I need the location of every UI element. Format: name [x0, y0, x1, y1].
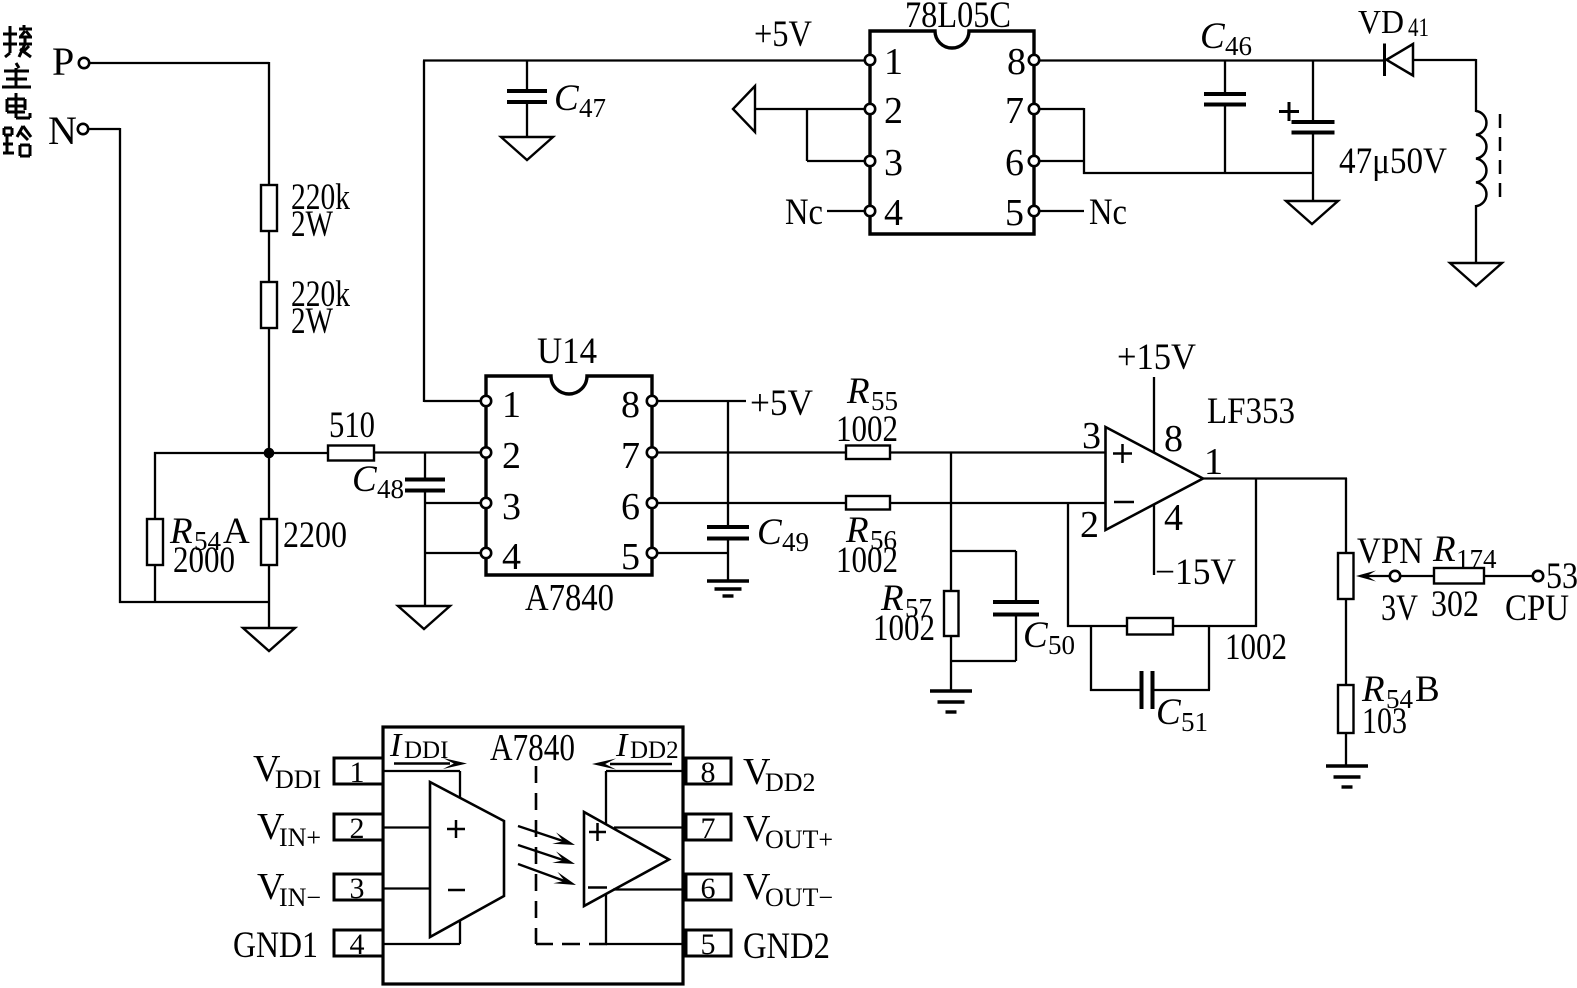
svg-text:46: 46	[1225, 31, 1252, 61]
wire C49 riser	[727, 401, 729, 525]
potentiometer R VPN	[1338, 553, 1354, 599]
ground C49	[707, 581, 749, 596]
label VDD2	[743, 751, 816, 797]
wire pin8 output rail	[1039, 59, 1384, 61]
svg-text:C: C	[554, 78, 580, 119]
wire P vertical to R 220k	[268, 62, 270, 186]
label R54A 2000	[169, 511, 250, 581]
wire 510 to U14 pin2	[373, 451, 483, 453]
pin 4 box GND1	[334, 928, 383, 961]
wire +5V vertical riser	[423, 61, 425, 403]
svg-text:5: 5	[701, 928, 716, 961]
output amplifier triangle	[584, 812, 669, 906]
svg-text:4: 4	[884, 192, 903, 234]
wire R54A bottom stub	[154, 564, 156, 603]
svg-text:LF353: LF353	[1207, 391, 1295, 432]
triangle minus mark	[588, 886, 607, 889]
trapezoid plus mark	[447, 820, 465, 838]
junction node divider	[264, 448, 275, 459]
svg-text:6: 6	[621, 486, 640, 528]
capacitor C51	[1142, 671, 1153, 709]
pin 7 box VOUT+	[686, 812, 731, 845]
resistor feedback 1002	[1127, 618, 1173, 635]
arrow IDD2	[592, 759, 672, 770]
pin 8 U14	[621, 384, 657, 426]
pin 2 U14	[481, 435, 521, 477]
svg-text:2200: 2200	[283, 515, 347, 556]
resistor 220k 2W upper	[261, 185, 277, 231]
svg-text:49: 49	[782, 527, 809, 557]
label VOUT-	[743, 866, 833, 912]
svg-text:7: 7	[701, 812, 716, 845]
voltage regulator 78L05C box	[870, 31, 1034, 234]
isolation amplifier U14 box	[486, 376, 652, 575]
wire R57 to ground	[950, 635, 952, 691]
wire output to VPN pot	[1345, 478, 1347, 554]
label 53	[1546, 556, 1577, 597]
label U14	[537, 331, 597, 372]
A7840 internal box	[383, 727, 683, 984]
power label +15V	[1117, 337, 1196, 378]
power label +5V top	[754, 14, 812, 55]
svg-text:2: 2	[350, 812, 365, 845]
resistor R56	[846, 496, 890, 510]
wire electrolytic top stub	[1312, 60, 1314, 120]
wire coil to ground	[1475, 205, 1477, 264]
svg-text:47μ50V: 47μ50V	[1339, 141, 1447, 182]
svg-text:8: 8	[1007, 41, 1026, 83]
svg-text:6: 6	[701, 872, 716, 905]
label Nc pin5	[1089, 192, 1127, 233]
svg-text:51: 51	[1181, 707, 1208, 737]
wire 2200 bottom stub	[268, 564, 270, 602]
capacitor C50	[993, 602, 1039, 615]
label R174	[1432, 529, 1497, 574]
svg-text:2000: 2000	[173, 540, 235, 581]
svg-text:7: 7	[1005, 90, 1024, 132]
pin 3 78L05C	[865, 142, 903, 184]
svg-text:78L05C: 78L05C	[905, 0, 1011, 36]
svg-text:4: 4	[1164, 497, 1183, 539]
svg-text:6: 6	[1005, 142, 1024, 184]
wire R54B to ground	[1345, 732, 1347, 766]
pin 4 78L05C	[865, 192, 903, 234]
wire pot to R54B	[1345, 598, 1347, 686]
wire C46 top stub	[1224, 60, 1226, 92]
pin 8 label opamp	[1164, 418, 1183, 460]
label R55	[846, 371, 898, 416]
label VIN-	[257, 866, 321, 912]
voltage label 3V	[1381, 588, 1418, 629]
resistor R54B	[1338, 685, 1354, 733]
wire pin7 to R55	[657, 451, 847, 453]
svg-text:1: 1	[350, 756, 365, 789]
wire C51 right leg	[1153, 626, 1210, 690]
power label +5V U14	[750, 383, 813, 424]
value label R57 1002	[873, 608, 935, 649]
wire Nc pin4	[827, 210, 865, 212]
svg-text:3V: 3V	[1381, 588, 1418, 629]
wire wiper to R174	[1400, 575, 1435, 577]
wire electrolytic ground stub	[1312, 134, 1314, 202]
capacitor C46	[1204, 94, 1246, 105]
resistor 2200	[261, 519, 277, 565]
wire pin3 stub	[425, 502, 483, 504]
net label VPN	[1357, 531, 1423, 572]
value label R174 302	[1431, 584, 1479, 625]
pin 6 U14	[621, 486, 657, 528]
label R56	[845, 510, 897, 555]
wire N horizontal	[88, 128, 120, 130]
op-amp plus input mark	[1113, 444, 1132, 463]
wire pin4 stub	[425, 552, 483, 554]
svg-text:5: 5	[621, 536, 640, 578]
svg-text:A7840: A7840	[490, 727, 575, 769]
ground U14 input side	[398, 606, 450, 629]
wire U14 pin1 horizontal	[424, 400, 483, 402]
svg-text:R: R	[1432, 529, 1456, 570]
label Nc pin4	[785, 192, 823, 233]
resistor 510	[328, 446, 374, 461]
svg-text:+5V: +5V	[754, 14, 812, 55]
ground coil	[1450, 263, 1502, 286]
wire C51 left leg	[1090, 626, 1141, 691]
svg-text:2: 2	[502, 435, 521, 477]
label C46	[1200, 16, 1252, 61]
svg-text:A7840: A7840	[525, 577, 614, 619]
pin 2 78L05C	[865, 90, 903, 132]
op-amp U15 LF353 triangle	[1106, 427, 1204, 530]
wire pin4 to amp	[383, 920, 460, 944]
pin 5 U14	[621, 536, 657, 578]
svg-text:OUT−: OUT−	[765, 883, 833, 912]
svg-text:IN−: IN−	[279, 883, 321, 912]
label C50	[1023, 615, 1075, 660]
svg-text:IN+: IN+	[279, 823, 321, 852]
svg-text:P: P	[52, 39, 74, 84]
svg-text:1002: 1002	[836, 540, 898, 581]
capacitor C48	[405, 480, 445, 491]
svg-text:+5V: +5V	[750, 383, 813, 424]
wire -15V supply	[1153, 504, 1155, 575]
label A7840	[525, 577, 614, 619]
svg-text:7: 7	[621, 435, 640, 477]
value label 510	[329, 405, 375, 446]
svg-text:C: C	[1023, 615, 1049, 656]
pin 4 label opamp	[1164, 497, 1183, 539]
svg-text:N: N	[48, 108, 77, 153]
svg-text:GND1: GND1	[233, 925, 318, 966]
svg-text:DD2: DD2	[630, 737, 679, 764]
wire C48 top stub	[424, 453, 426, 479]
svg-text:3: 3	[884, 142, 903, 184]
ground electrolytic	[1286, 201, 1338, 224]
terminal P	[52, 39, 89, 84]
wire pin5 to amp	[606, 894, 683, 944]
arrow output symbol	[733, 86, 755, 132]
wire C50 bottom	[951, 616, 1016, 661]
svg-text:1002: 1002	[836, 409, 898, 450]
terminal VPN wiper	[1390, 571, 1400, 581]
svg-text:OUT+: OUT+	[765, 825, 833, 854]
power label -15V	[1155, 552, 1236, 593]
wire R174 to CPU	[1483, 575, 1534, 577]
svg-text:5: 5	[1005, 192, 1024, 234]
wire C46 bottom stub	[1224, 106, 1226, 174]
wire pin8 to amp	[606, 771, 683, 824]
wire R54A vertical stub	[154, 452, 156, 520]
svg-text:VPN: VPN	[1357, 531, 1423, 572]
wire feedback left	[1067, 625, 1128, 627]
svg-text:U14: U14	[537, 331, 597, 372]
svg-text:VD: VD	[1358, 4, 1404, 41]
svg-text:C: C	[1156, 692, 1182, 733]
pin 1 78L05C	[865, 41, 903, 83]
svg-text:DD2: DD2	[765, 768, 816, 797]
pin 6 box VOUT-	[686, 872, 731, 905]
wire P horizontal	[89, 62, 269, 64]
wire pin5 Nc	[1039, 210, 1084, 212]
pin 1 box VDDI	[334, 756, 383, 789]
svg-text:+15V: +15V	[1117, 337, 1196, 378]
wire pin1 to amp	[383, 771, 460, 798]
wire feedback tap vertical	[1067, 503, 1069, 627]
svg-text:−15V: −15V	[1155, 552, 1236, 593]
svg-text:1: 1	[884, 41, 903, 83]
wire C47 stub	[526, 61, 528, 90]
wire bottom rail left	[119, 601, 270, 603]
wire C48 to ground line	[424, 490, 426, 606]
svg-text:302: 302	[1431, 584, 1479, 625]
label C47	[554, 78, 606, 123]
wire pin2 to pin3 link	[807, 109, 865, 161]
wire pin8 to +5V	[657, 400, 746, 402]
pot wiper arrow	[1356, 571, 1389, 582]
pin 3 box VIN-	[334, 872, 383, 905]
ground R57	[930, 691, 972, 712]
wire junction to 510	[269, 452, 329, 454]
svg-text:103: 103	[1362, 701, 1407, 742]
terminal 53 CPU	[1533, 571, 1543, 581]
transformer core dashed	[1499, 114, 1502, 205]
ground C47	[501, 137, 553, 160]
wire +15V supply	[1153, 377, 1155, 452]
svg-text:41: 41	[1408, 13, 1429, 42]
pin 3 label opamp	[1082, 415, 1101, 457]
svg-text:DDI: DDI	[275, 765, 321, 794]
wire R57 tap vertical	[950, 453, 952, 593]
wire C46 bottom rail	[1083, 172, 1314, 174]
wire pin7 to amp	[614, 826, 683, 828]
svg-text:1002: 1002	[873, 608, 935, 649]
label 78L05C	[905, 0, 1011, 36]
capacitor 47u50V electrolytic	[1292, 122, 1335, 133]
value label 220k 2W upper	[291, 177, 350, 245]
wire N vertical	[119, 128, 121, 603]
svg-text:C: C	[757, 512, 783, 553]
svg-text:R: R	[846, 371, 870, 412]
label C49	[757, 512, 809, 557]
svg-text:C: C	[352, 459, 378, 500]
value label 47u50V	[1339, 141, 1447, 182]
pin 1 label opamp	[1204, 441, 1223, 483]
wire pins7-6 link	[1039, 108, 1084, 174]
diode VD41	[1385, 44, 1414, 77]
label R57	[880, 578, 932, 623]
svg-text:510: 510	[329, 405, 375, 446]
svg-text:I: I	[389, 727, 403, 764]
svg-text:174: 174	[1456, 544, 1497, 574]
wire diode to coil	[1412, 59, 1476, 112]
wire 220k to junction	[268, 327, 270, 453]
value label 220k 2W lower	[291, 274, 350, 342]
value label feedback 1002	[1225, 627, 1287, 668]
svg-text:CPU: CPU	[1505, 588, 1569, 629]
label VIN+	[257, 806, 321, 852]
svg-text:2W: 2W	[291, 204, 333, 245]
terminal N	[48, 108, 88, 153]
wire node to R54A top	[154, 452, 270, 454]
label VDDI	[253, 748, 321, 794]
wire pin3 to amp	[383, 887, 430, 889]
wire stub to ground	[268, 602, 270, 629]
svg-text:GND2: GND2	[743, 926, 830, 967]
wire pin6 to R56	[657, 502, 847, 504]
wire R56 to opamp	[889, 502, 1106, 504]
wire C47 ground stub	[526, 104, 528, 137]
svg-text:47: 47	[579, 93, 606, 123]
svg-text:2: 2	[1080, 504, 1099, 546]
svg-text:3: 3	[350, 872, 365, 905]
optical coupling arrows	[518, 826, 576, 885]
pin 4 U14	[481, 536, 521, 578]
capacitor C47	[507, 91, 547, 102]
wire pin2 to amp	[383, 826, 430, 828]
svg-text:3: 3	[502, 486, 521, 528]
pin 7 U14	[621, 435, 657, 477]
pin 5 78L05C	[1005, 192, 1039, 234]
input amplifier trapezoid	[430, 782, 504, 937]
svg-text:B: B	[1415, 669, 1440, 710]
wire junction to 2200	[268, 452, 270, 520]
pin 6 78L05C	[1005, 142, 1039, 184]
label LF353	[1207, 391, 1295, 432]
svg-text:C: C	[1200, 16, 1226, 57]
pin 8 box VDD2	[686, 756, 731, 789]
label R54B	[1361, 669, 1440, 714]
op-amp minus input mark	[1114, 501, 1134, 504]
label C51	[1156, 692, 1208, 737]
capacitor C49	[707, 527, 749, 539]
current label IDD2	[615, 727, 679, 764]
current label IDD1	[389, 727, 448, 764]
svg-text:8: 8	[701, 756, 716, 789]
svg-text:1: 1	[1204, 441, 1223, 483]
wire between 220k resistors	[268, 230, 270, 283]
triangle plus mark	[589, 823, 606, 841]
value label R56 1002	[836, 540, 898, 581]
svg-text:I: I	[615, 727, 629, 764]
ground R54B	[1326, 766, 1368, 787]
label C48	[352, 459, 404, 504]
plus sign electrolytic	[1279, 102, 1299, 121]
pin 2 box VIN+	[334, 812, 383, 845]
svg-text:50: 50	[1048, 630, 1075, 660]
svg-text:3: 3	[1082, 415, 1101, 457]
svg-text:1: 1	[502, 384, 521, 426]
svg-text:4: 4	[502, 536, 521, 578]
ground divider	[243, 628, 295, 651]
resistor R54A 2000	[147, 519, 163, 565]
resistor R57	[944, 591, 959, 636]
wire +5V top rail	[423, 59, 865, 61]
svg-text:8: 8	[1164, 418, 1183, 460]
label GND1	[233, 925, 318, 966]
wire C50 top	[951, 551, 1016, 600]
label CPU	[1505, 588, 1569, 629]
value label R54B 103	[1362, 701, 1407, 742]
wire R55 to opamp	[889, 451, 1106, 453]
svg-text:Nc: Nc	[785, 192, 823, 233]
svg-text:8: 8	[621, 384, 640, 426]
svg-text:2W: 2W	[291, 301, 333, 342]
svg-text:Nc: Nc	[1089, 192, 1127, 233]
label A7840 internal	[490, 727, 575, 769]
label VOUT+	[743, 808, 833, 854]
resistor R55	[846, 446, 890, 460]
net label 接主电路 (connect to main circuit)	[2, 25, 32, 156]
trapezoid minus mark	[448, 889, 465, 892]
label VD41	[1358, 4, 1429, 42]
arrow IDD1	[394, 758, 467, 769]
pin 2 label opamp	[1080, 504, 1099, 546]
value label 2200	[283, 515, 347, 556]
pin 7 78L05C	[1005, 90, 1039, 132]
label GND2	[743, 926, 830, 967]
pin 5 box GND2	[686, 928, 731, 961]
value label R55 1002	[836, 409, 898, 450]
pin 8 78L05C	[1007, 41, 1039, 83]
resistor 220k 2W lower	[261, 282, 277, 328]
wire arrow to pin2	[755, 108, 865, 110]
wire pin5 to ground line	[657, 552, 728, 554]
wire opamp output	[1202, 477, 1347, 479]
svg-text:4: 4	[350, 928, 365, 961]
wire pin6 to amp	[613, 888, 683, 890]
svg-text:1002: 1002	[1225, 627, 1287, 668]
svg-text:48: 48	[377, 474, 404, 504]
pin 1 U14	[481, 384, 521, 426]
isolation barrier dashed	[536, 766, 607, 944]
pin 3 U14	[481, 486, 521, 528]
resistor R174	[1434, 568, 1484, 584]
svg-text:2: 2	[884, 90, 903, 132]
wire feedback right	[1172, 479, 1257, 628]
svg-text:DDI: DDI	[404, 737, 448, 764]
inductor winding	[1476, 111, 1486, 206]
wire C49 ground stub	[727, 540, 729, 581]
